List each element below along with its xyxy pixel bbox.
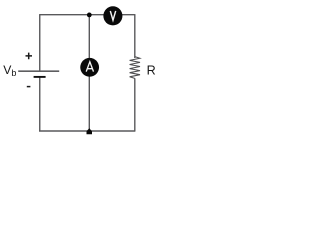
svg-text:R: R (147, 64, 156, 78)
wire: right vertical upper (corner to resistor) (134, 14, 136, 58)
svg-text:Vb: Vb (3, 63, 16, 78)
wire: left vertical from top corner to battery top plate (39, 14, 41, 71)
wire: top horizontal from left corner to right corner (40, 14, 135, 16)
voltmeter letter V (110, 11, 115, 20)
wire: left vertical from battery bottom plate to bottom wire (39, 78, 41, 132)
resistor R zigzag (130, 57, 140, 79)
battery minus sign (27, 86, 31, 88)
wire: bottom horizontal (39, 130, 135, 132)
junction node (bottom, pentagon blob) (87, 128, 93, 134)
wire: middle branch lower (ammeter to bottom node) (88, 76, 90, 132)
battery plus sign (26, 53, 33, 60)
battery Vb long plate (positive) (18, 70, 59, 72)
ammeter U2 circle (80, 58, 99, 77)
wire: middle branch upper (junction dot to ammeter) (88, 15, 90, 59)
battery Vb short plate (negative) (34, 76, 46, 78)
junction node (top dot) (87, 13, 92, 18)
voltmeter U1 circle (103, 6, 122, 25)
wire: right vertical lower (resistor to bottom corner) (134, 78, 136, 131)
ammeter letter A (86, 62, 93, 72)
